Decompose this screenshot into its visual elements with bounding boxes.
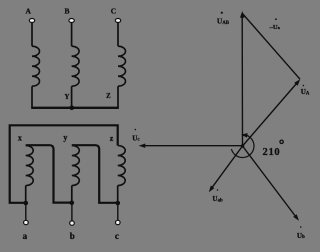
vector U_c (pointing left) — [145, 145, 243, 147]
wire C coil to bus — [117, 86, 119, 108]
terminal C — [115, 19, 120, 23]
wire winding z bottom — [117, 186, 119, 204]
wire B coil to bus — [71, 86, 73, 108]
svg-text:z: z — [110, 134, 114, 143]
vector -U_a line (from U_AB tip to U_A tip) — [242, 14, 300, 80]
wire A stem — [31, 23, 33, 47]
winding z (secondary coil) — [118, 146, 126, 186]
node O (phasor origin) — [241, 144, 245, 148]
svg-text:c: c — [115, 231, 119, 241]
winding y (secondary coil) — [72, 146, 80, 186]
label -U_a — [269, 18, 281, 30]
label U_ab — [212, 189, 223, 203]
wire winding x top to junction b — [26, 145, 72, 202]
winding B (primary coil) — [72, 46, 80, 86]
wire winding y bottom — [71, 186, 73, 204]
terminal a — [24, 220, 29, 224]
vector U_ab — [212, 146, 242, 187]
label U_c — [132, 129, 140, 143]
vector U_AB line — [241, 16, 243, 146]
svg-text:210: 210 — [263, 147, 281, 158]
svg-text:b: b — [70, 231, 75, 241]
svg-text:B: B — [64, 6, 69, 15]
wire winding y top to junction c — [72, 145, 118, 203]
svg-text:y: y — [63, 133, 67, 142]
junction c — [116, 201, 121, 206]
label U_b — [297, 226, 305, 240]
wire winding x bottom — [25, 186, 27, 204]
svg-text:–Ua: –Ua — [269, 24, 281, 31]
svg-text:Y: Y — [64, 94, 69, 101]
label U_A — [301, 85, 310, 97]
winding A (primary coil) — [32, 46, 40, 86]
junction a — [24, 201, 29, 206]
wire A coil to bus — [31, 86, 33, 108]
label U_AB — [217, 12, 230, 26]
junction neutral — [70, 106, 75, 111]
svg-text:x: x — [18, 134, 22, 143]
neutral bus wire — [31, 107, 119, 109]
terminal b — [70, 221, 75, 225]
vector U_A — [243, 84, 297, 147]
label 210 degrees — [263, 140, 284, 158]
terminal B — [69, 19, 74, 23]
winding x (secondary coil) — [26, 146, 34, 186]
terminal c — [116, 220, 121, 224]
wire terminal a stem — [25, 203, 27, 220]
winding C (primary coil) — [118, 46, 126, 86]
wire terminal b stem — [71, 203, 73, 221]
svg-text:Z: Z — [106, 93, 111, 100]
svg-text:C: C — [111, 6, 116, 15]
angle arc 210 degrees — [231, 135, 254, 158]
wire terminal c stem — [117, 203, 119, 220]
wire B stem — [71, 23, 73, 47]
svg-text:a: a — [23, 231, 28, 241]
junction b — [70, 201, 75, 206]
terminal A — [29, 19, 34, 23]
secondary frame wire (left edge and top edge) — [10, 125, 118, 203]
svg-text:A: A — [25, 6, 31, 15]
wire C stem — [117, 23, 119, 47]
vector U_b — [243, 146, 296, 216]
